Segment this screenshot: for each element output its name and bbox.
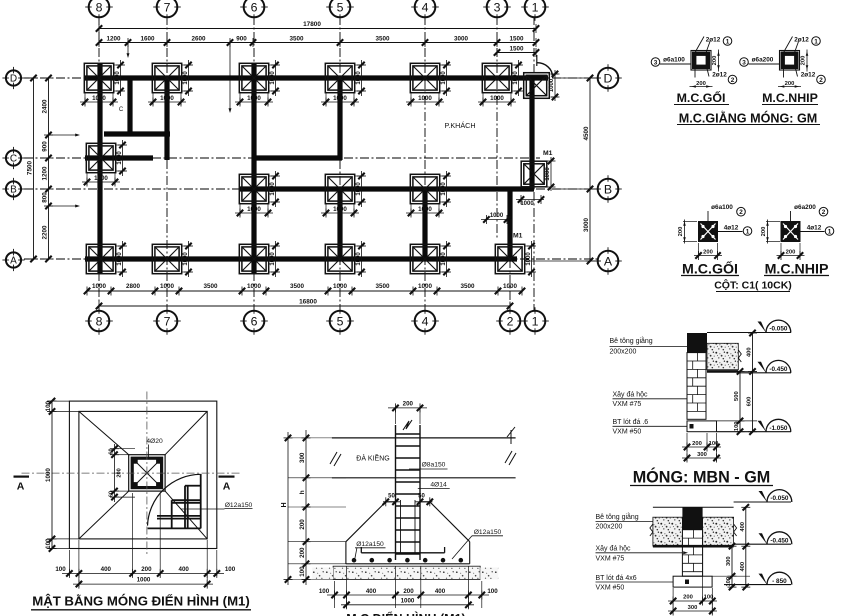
svg-text:A: A — [223, 481, 231, 493]
axis bubble B left — [6, 181, 21, 196]
foundation pad M1 at A2 — [495, 244, 524, 273]
svg-text:7: 7 — [164, 314, 171, 328]
MBN-GM upper: bottom dims — [686, 433, 688, 461]
svg-text:1: 1 — [814, 38, 818, 45]
svg-text:100: 100 — [709, 441, 719, 447]
axis bubble 8 top — [89, 0, 110, 17]
foundation pad M1 at A4 — [410, 244, 439, 273]
pad dims A7 — [182, 245, 192, 247]
M1 plan outer square — [69, 401, 216, 548]
svg-text:1000: 1000 — [92, 95, 106, 102]
svg-text:M.C.GỐI: M.C.GỐI — [682, 259, 738, 277]
section: rebar dots — [352, 558, 357, 563]
svg-text:7500: 7500 — [26, 160, 33, 175]
MBN-GM upper: level -1.050 — [717, 431, 792, 433]
svg-text:1600: 1600 — [140, 35, 155, 42]
svg-text:1000: 1000 — [247, 95, 261, 102]
svg-text:800: 800 — [41, 192, 48, 203]
svg-text:VXM #75: VXM #75 — [596, 556, 625, 563]
svg-text:200: 200 — [786, 249, 796, 255]
axis bubble 1 bottom — [525, 311, 546, 332]
svg-text:300: 300 — [726, 556, 732, 566]
svg-text:1: 1 — [726, 38, 730, 45]
wall axis 5 vertical upper — [337, 78, 342, 160]
MBN-GM upper: level -0.050 — [707, 332, 791, 334]
grid axis line B — [24, 188, 598, 190]
axis bubble A left — [6, 252, 21, 267]
axis bubble A right — [598, 251, 619, 272]
MBN-GM lower: tie beam black square — [682, 507, 702, 529]
svg-text:200: 200 — [683, 595, 693, 601]
section: bottom dims — [334, 581, 336, 608]
svg-text:2ø12: 2ø12 — [794, 37, 809, 44]
svg-text:200: 200 — [141, 566, 152, 573]
svg-text:P.KHÁCH: P.KHÁCH — [444, 121, 475, 130]
grid axis line 7 — [166, 16, 168, 312]
svg-text:D: D — [604, 71, 613, 85]
svg-text:Ø8a150: Ø8a150 — [422, 462, 446, 469]
svg-text:300: 300 — [299, 452, 306, 463]
svg-text:1000: 1000 — [401, 597, 415, 604]
M1 plan inner square — [79, 411, 207, 539]
svg-text:200x200: 200x200 — [596, 524, 623, 531]
svg-text:Xây đá hộc: Xây đá hộc — [596, 546, 632, 553]
MBN-GM lower: level -0.850 — [724, 584, 791, 586]
svg-text:3500: 3500 — [290, 283, 305, 290]
svg-text:2: 2 — [739, 209, 743, 216]
svg-text:1000: 1000 — [183, 252, 189, 266]
svg-text:MÓNG: MBN - GM: MÓNG: MBN - GM — [633, 468, 771, 487]
svg-text:-0.050: -0.050 — [769, 326, 788, 333]
M1 plan bottom dims — [68, 550, 70, 576]
foundation pad M1 at B4 — [410, 174, 439, 203]
pad dims D7 — [152, 93, 154, 105]
svg-text:1200: 1200 — [41, 166, 48, 181]
extension leader 900 — [49, 134, 78, 136]
svg-text:1000: 1000 — [490, 213, 504, 219]
axis bubble 5 top — [330, 0, 351, 17]
svg-text:2600: 2600 — [191, 35, 206, 42]
svg-text:BT lót đá .6: BT lót đá .6 — [613, 419, 649, 426]
MBN-GM lower: bottom dims — [672, 588, 674, 614]
svg-text:1000: 1000 — [160, 283, 175, 290]
section: lean concrete speckled strip — [333, 566, 480, 579]
grid axis line D — [24, 77, 598, 79]
extension leader 800 — [49, 205, 78, 207]
svg-text:1000: 1000 — [545, 167, 551, 181]
svg-text:4ø12: 4ø12 — [807, 225, 822, 232]
svg-text:1000: 1000 — [333, 206, 347, 213]
svg-text:-0.050: -0.050 — [770, 495, 789, 502]
svg-text:1: 1 — [746, 228, 750, 235]
svg-text:400: 400 — [101, 566, 112, 573]
M1 plan section marks A-A — [14, 476, 30, 478]
svg-text:200x200: 200x200 — [610, 349, 637, 356]
foundation pad offset B1 — [521, 161, 547, 187]
foundation pad M1 at A5 — [325, 244, 354, 273]
svg-text:1000: 1000 — [92, 283, 107, 290]
section: column shaft lines — [395, 425, 397, 560]
foundation pad M1 at D7 — [152, 63, 181, 92]
svg-text:1000: 1000 — [270, 182, 276, 196]
svg-text:50: 50 — [388, 494, 395, 500]
wall axis 8 vertical — [97, 64, 102, 273]
svg-text:1000: 1000 — [137, 577, 151, 584]
grid axis line A — [24, 258, 598, 260]
svg-text:3500: 3500 — [375, 283, 390, 290]
svg-text:200: 200 — [712, 56, 718, 66]
svg-text:VXM #50: VXM #50 — [596, 585, 625, 592]
axis bubble 4 bottom — [415, 311, 436, 332]
wall partition y134 — [104, 131, 170, 136]
svg-text:400: 400 — [740, 522, 746, 532]
svg-text:100: 100 — [55, 566, 66, 573]
axis bubble D left — [6, 70, 21, 85]
grid axis line 2 — [509, 195, 511, 312]
svg-text:1000: 1000 — [333, 95, 347, 102]
svg-text:60: 60 — [108, 491, 114, 497]
svg-text:3: 3 — [654, 59, 658, 66]
MBN-GM lower: stone masonry column — [682, 530, 702, 577]
svg-text:VXM #50: VXM #50 — [613, 429, 642, 436]
svg-text:100: 100 — [45, 538, 52, 549]
svg-text:1500: 1500 — [509, 35, 524, 42]
svg-text:3000: 3000 — [583, 218, 590, 233]
svg-text:100: 100 — [319, 588, 330, 595]
foundation pad M1 at D5 — [325, 63, 354, 92]
foundation pad M1 at D4 — [410, 63, 439, 92]
section: stirrup rungs — [396, 433, 421, 435]
svg-text:100: 100 — [299, 566, 306, 577]
svg-text:3: 3 — [494, 0, 501, 14]
svg-text:1000: 1000 — [94, 175, 108, 182]
MBN-GM lower: right dims — [712, 575, 750, 577]
section: tie beam lines — [332, 437, 516, 439]
grid axis line C — [24, 157, 540, 159]
MBN-GM lower: level -0.050 — [734, 501, 791, 503]
svg-text:6: 6 — [251, 0, 258, 14]
wall axis 6 vertical — [251, 64, 256, 273]
svg-text:7: 7 — [164, 0, 171, 14]
svg-text:M.C.NHIP: M.C.NHIP — [762, 91, 818, 105]
svg-text:Ø12a150: Ø12a150 — [225, 502, 253, 509]
svg-text:900: 900 — [41, 141, 48, 152]
MBN-GM upper: right dims — [717, 420, 758, 422]
svg-text:1000: 1000 — [490, 95, 504, 102]
svg-text:1000: 1000 — [45, 468, 52, 482]
svg-text:900: 900 — [236, 35, 247, 42]
svg-text:200: 200 — [785, 81, 795, 87]
svg-text:2ø12: 2ø12 — [801, 72, 816, 79]
pad dims A6 — [269, 245, 279, 247]
wall axis 2 vertical — [507, 189, 512, 261]
svg-text:200: 200 — [703, 249, 713, 255]
pad dims B4 — [410, 204, 412, 216]
svg-text:300: 300 — [688, 605, 698, 611]
svg-text:MẬT BẰNG MÓNG ĐIỂN HÌNH (M1): MẬT BẰNG MÓNG ĐIỂN HÌNH (M1) — [32, 594, 250, 609]
wall axis 7 vertical — [164, 78, 169, 160]
svg-text:- 850: - 850 — [772, 578, 787, 585]
svg-text:1000: 1000 — [117, 252, 123, 266]
axis bubble D right — [598, 68, 619, 89]
pad dims A2 — [525, 245, 535, 247]
svg-text:C: C — [10, 154, 17, 165]
column section M.C.NHIP square — [781, 222, 800, 242]
grid axis line 4 — [424, 16, 426, 312]
svg-text:1200: 1200 — [106, 35, 121, 42]
svg-text:CỘT: C1( 10CK): CỘT: C1( 10CK) — [714, 279, 792, 292]
svg-text:D: D — [10, 74, 17, 85]
svg-text:1000: 1000 — [247, 206, 261, 213]
svg-text:1500: 1500 — [509, 45, 524, 52]
svg-text:1000: 1000 — [520, 201, 534, 207]
pad dims D4 — [410, 93, 412, 105]
svg-text:3500: 3500 — [460, 283, 475, 290]
M1 plan rebar mesh — [171, 500, 173, 528]
svg-text:2: 2 — [819, 77, 823, 84]
foundation pad M1 at D8 — [84, 63, 113, 92]
pad dims A5 — [355, 245, 365, 247]
svg-text:1000: 1000 — [503, 283, 518, 290]
svg-text:-0.450: -0.450 — [769, 366, 788, 373]
svg-text:BT lót đá 4x6: BT lót đá 4x6 — [596, 575, 637, 582]
extension arrow 2600 — [229, 43, 231, 110]
svg-text:ø6a100: ø6a100 — [663, 57, 685, 64]
M1 plan centerlines — [146, 392, 148, 557]
svg-text:B: B — [10, 185, 17, 196]
grid axis line 3 — [496, 16, 498, 240]
svg-text:1000: 1000 — [356, 252, 362, 266]
svg-text:2: 2 — [731, 77, 735, 84]
MBN-GM upper: stone masonry column — [687, 353, 706, 420]
svg-text:300: 300 — [697, 452, 707, 458]
dimension total 7500 — [33, 78, 35, 259]
svg-text:1000: 1000 — [418, 206, 432, 213]
axis bubble 6 top — [244, 0, 265, 17]
svg-text:1000: 1000 — [356, 71, 362, 85]
svg-text:200: 200 — [761, 227, 767, 237]
svg-text:1000: 1000 — [526, 252, 532, 266]
svg-text:5: 5 — [337, 314, 344, 328]
svg-text:200: 200 — [403, 588, 414, 595]
svg-text:1000: 1000 — [549, 78, 555, 92]
svg-text:h: h — [299, 490, 306, 494]
pad dims D6 — [239, 93, 241, 105]
axis bubble B right — [598, 179, 619, 200]
svg-text:100: 100 — [704, 595, 714, 601]
foundation pad M1 at A6 — [239, 244, 268, 273]
M1 plan 60-200-60 dims — [114, 444, 116, 502]
svg-text:1000: 1000 — [160, 95, 174, 102]
svg-text:500: 500 — [734, 391, 740, 401]
svg-text:4500: 4500 — [583, 126, 590, 141]
svg-text:100: 100 — [734, 421, 740, 431]
svg-text:2ø12: 2ø12 — [706, 37, 721, 44]
svg-text:Bê tông giằng: Bê tông giằng — [596, 512, 639, 521]
axis bubble 7 bottom — [157, 311, 178, 332]
axis bubble 5 bottom — [330, 311, 351, 332]
svg-text:200: 200 — [692, 441, 702, 447]
svg-text:3500: 3500 — [375, 35, 390, 42]
wall x130 vertical — [127, 78, 132, 136]
svg-text:M.C.GIẰNG MÓNG: GM: M.C.GIẰNG MÓNG: GM — [679, 111, 818, 126]
pad dims D3 — [482, 93, 484, 105]
foundation pad M1 at D3 — [482, 63, 511, 92]
MBN-GM upper: level -0.450 — [738, 372, 791, 374]
svg-text:4: 4 — [422, 314, 429, 328]
svg-text:1000: 1000 — [115, 71, 121, 85]
MBN-GM lower: ground hatch left — [653, 517, 683, 546]
svg-text:1: 1 — [532, 314, 539, 328]
MBN-GM lower: floor line — [653, 506, 734, 508]
pad dims D5 — [325, 93, 327, 105]
svg-text:200: 200 — [696, 81, 706, 87]
svg-text:100: 100 — [225, 566, 236, 573]
grid axis line 1 — [533, 16, 535, 312]
foundation pad M1 at A8 — [86, 244, 115, 273]
svg-text:17800: 17800 — [303, 21, 321, 28]
svg-text:200: 200 — [403, 400, 414, 407]
svg-text:Bê tông giằng: Bê tông giằng — [610, 336, 653, 345]
svg-text:2: 2 — [822, 209, 826, 216]
svg-text:1000: 1000 — [441, 182, 447, 196]
svg-text:100: 100 — [487, 588, 498, 595]
svg-text:4Ø20: 4Ø20 — [146, 438, 163, 445]
svg-text:2800: 2800 — [126, 283, 141, 290]
wall axis 1 vertical — [529, 78, 534, 189]
MBN-GM lower: level -0.450 — [734, 543, 791, 545]
wall axis 4 vertical lower — [422, 189, 427, 259]
svg-text:2ø12: 2ø12 — [712, 72, 727, 79]
M1 plan left dims — [47, 400, 69, 402]
svg-text:M.C.GỐI: M.C.GỐI — [677, 90, 726, 105]
grid axis line 8 — [98, 16, 100, 312]
svg-text:A: A — [604, 254, 613, 268]
pad dims A8 — [116, 245, 126, 247]
svg-text:1000: 1000 — [356, 182, 362, 196]
foundation pad M1 at B5 — [325, 174, 354, 203]
door arc entry — [537, 63, 553, 77]
axis bubble 1 top — [525, 0, 546, 17]
svg-text:8: 8 — [96, 0, 103, 14]
dimension row top segments — [99, 42, 536, 44]
section: beam break marks — [330, 452, 337, 464]
svg-text:1000: 1000 — [270, 252, 276, 266]
dim 1000 at B jog — [481, 219, 512, 221]
MBN-GM lower: lean concrete footing — [673, 576, 712, 587]
svg-text:A: A — [17, 481, 25, 493]
svg-text:H: H — [281, 502, 288, 507]
section: top dim 200 — [395, 408, 397, 424]
svg-text:3000: 3000 — [454, 35, 469, 42]
axis bubble 6 bottom — [244, 311, 265, 332]
MBN-GM upper: lean concrete footing — [687, 421, 717, 432]
pad dims B5 — [325, 204, 327, 216]
wall row B — [240, 186, 534, 191]
column section M.C.GOI square — [699, 222, 718, 242]
beam section M.C.NHIP square — [780, 51, 800, 71]
svg-text:C: C — [119, 107, 124, 113]
svg-text:1: 1 — [828, 228, 832, 235]
dimension 1500 extra — [497, 52, 536, 54]
foundation pad M1 at C8 — [86, 143, 115, 172]
svg-text:3500: 3500 — [289, 35, 304, 42]
svg-text:1000: 1000 — [441, 71, 447, 85]
svg-text:400: 400 — [740, 562, 746, 572]
wall row A — [85, 256, 517, 261]
svg-text:1000: 1000 — [270, 71, 276, 85]
svg-text:5: 5 — [337, 0, 344, 14]
svg-text:200: 200 — [801, 56, 807, 66]
dimension right 4500 3000 — [589, 78, 591, 261]
svg-text:200: 200 — [117, 468, 123, 477]
axis bubble 8 bottom — [89, 311, 110, 332]
svg-text:1000: 1000 — [117, 151, 123, 165]
svg-text:B: B — [604, 182, 612, 196]
svg-text:200: 200 — [299, 547, 306, 558]
svg-text:100: 100 — [45, 400, 52, 411]
svg-text:16800: 16800 — [299, 299, 317, 306]
grid axis line 5 — [339, 16, 341, 312]
svg-text:4Ø14: 4Ø14 — [430, 482, 447, 489]
svg-text:Ø12a150: Ø12a150 — [474, 529, 502, 536]
svg-text:1000: 1000 — [418, 283, 433, 290]
svg-text:VXM #75: VXM #75 — [613, 401, 642, 408]
svg-text:1000: 1000 — [333, 283, 348, 290]
svg-text:M1: M1 — [543, 150, 553, 157]
svg-text:400: 400 — [366, 588, 377, 595]
svg-text:200: 200 — [678, 227, 684, 237]
svg-text:60: 60 — [108, 448, 114, 454]
svg-text:ø6a200: ø6a200 — [752, 57, 774, 64]
svg-text:1000: 1000 — [183, 71, 189, 85]
MBN-GM upper: tie beam black square — [687, 333, 707, 353]
foundation pad M1 at A7 — [152, 244, 181, 273]
svg-text:M.C ĐIỂN HÌNH (M1): M.C ĐIỂN HÌNH (M1) — [346, 611, 465, 616]
wall row D — [85, 75, 548, 80]
section: column dowels — [400, 500, 402, 553]
svg-text:8: 8 — [96, 314, 103, 328]
svg-text:ø6a200: ø6a200 — [794, 204, 816, 211]
M1 plan quarter arc — [148, 474, 201, 525]
axis bubble C left — [6, 150, 21, 165]
svg-text:400: 400 — [435, 588, 446, 595]
svg-text:3500: 3500 — [203, 283, 218, 290]
svg-text:1000: 1000 — [418, 95, 432, 102]
svg-text:2: 2 — [507, 314, 514, 328]
svg-text:400: 400 — [179, 566, 190, 573]
grid axis line 6 — [253, 16, 255, 312]
MBN-GM lower: ground hatch right — [703, 517, 734, 546]
wall axis 5 vertical lower — [337, 189, 342, 259]
svg-text:-1.050: -1.050 — [769, 425, 788, 432]
section: footing trapezoid — [386, 501, 396, 503]
section: break mark — [403, 420, 412, 430]
svg-text:1000: 1000 — [441, 252, 447, 266]
MBN-GM upper: ground hatch — [707, 343, 738, 369]
svg-text:6: 6 — [251, 314, 258, 328]
M1 plan pyramid diagonals — [79, 411, 129, 454]
svg-text:Xây đá hộc: Xây đá hộc — [613, 392, 649, 399]
svg-text:Ø12a150: Ø12a150 — [356, 541, 384, 548]
dimension row bottom segments — [87, 290, 522, 292]
extension arrow 1200 — [127, 43, 129, 55]
svg-text:-0.450: -0.450 — [770, 537, 789, 544]
pad dims C8 — [86, 173, 88, 185]
dimension total 17800 — [99, 28, 536, 30]
svg-text:400: 400 — [747, 347, 753, 357]
axis bubble 2 bottom — [500, 311, 521, 332]
